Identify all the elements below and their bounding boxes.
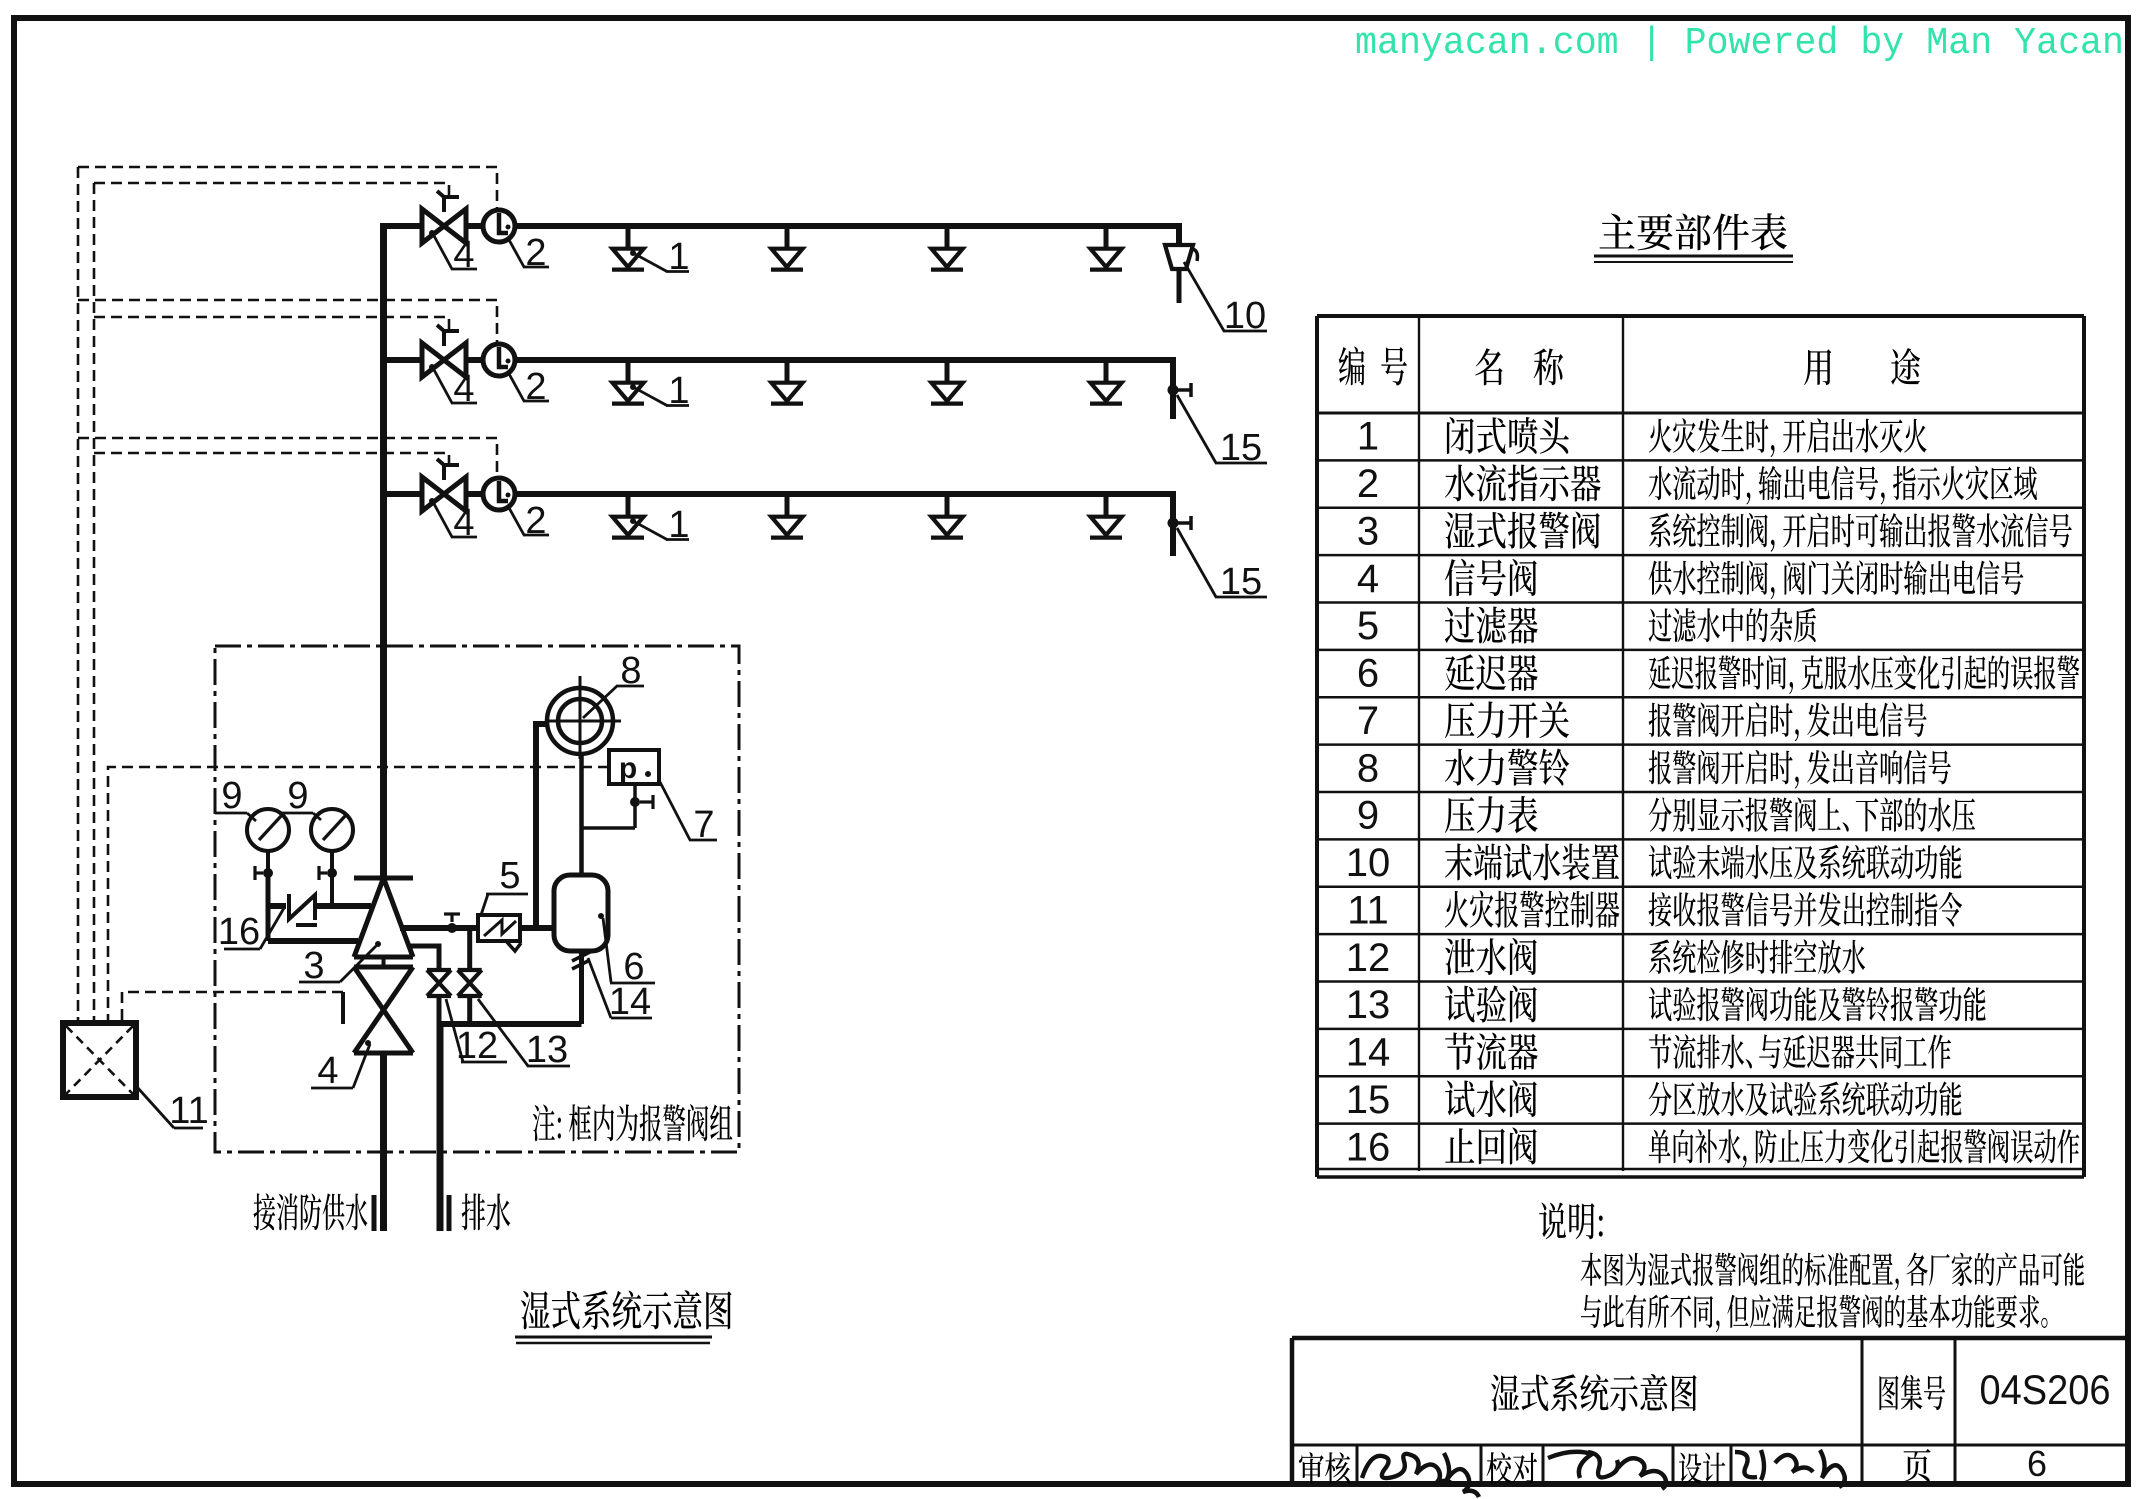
signal valve 4 on branch 3	[422, 459, 466, 511]
signal valve 4 on branch 1	[422, 191, 466, 243]
label 16	[218, 908, 284, 953]
label 1 branch 2	[630, 370, 690, 412]
wire to flow indicator 1	[78, 167, 497, 210]
svg-text:16: 16	[1346, 1125, 1391, 1169]
shuoming heading	[1539, 1203, 1603, 1240]
label 2 branch 3	[508, 500, 549, 542]
note line 1	[1581, 1252, 2084, 1290]
label supply text	[254, 1193, 368, 1230]
label 4 riser	[311, 1044, 370, 1092]
svg-text:15: 15	[1346, 1078, 1391, 1122]
svg-text:6: 6	[2027, 1443, 2047, 1484]
note kuangnei	[533, 1104, 732, 1141]
sprinkler 1 (branch 1 #4)	[1090, 228, 1122, 270]
alarm valve group box (dash-dot)	[215, 646, 739, 1152]
test water valve 15 branch 2	[1168, 383, 1192, 397]
wet alarm valve 3	[354, 878, 413, 967]
sprinkler 1 (branch 2 #1)	[612, 362, 644, 404]
label 4 branch 3	[433, 502, 477, 544]
diagram title	[515, 1290, 732, 1343]
test valve 13	[458, 970, 482, 996]
pipe bell to delayer	[579, 754, 584, 875]
label sheji	[1679, 1453, 1725, 1484]
label 15 branch 3	[1177, 528, 1267, 603]
svg-text:3: 3	[1357, 509, 1379, 553]
svg-text:4: 4	[453, 368, 474, 410]
table row 13 试验阀	[1346, 983, 1986, 1027]
pipe riser to bell	[536, 724, 549, 928]
svg-text:5: 5	[1357, 604, 1379, 648]
pressure gauge 9b	[311, 809, 353, 851]
branch pipe 1	[384, 226, 1180, 246]
svg-text:manyacan.com | Powered by Man: manyacan.com | Powered by Man Yacan	[1355, 22, 2124, 65]
table row 4 信号阀	[1357, 557, 2024, 601]
svg-text:8: 8	[1357, 746, 1379, 790]
label 15 branch 2	[1177, 395, 1267, 469]
svg-text:14: 14	[1346, 1031, 1391, 1075]
svg-text:5: 5	[499, 855, 520, 897]
table row 9 压力表	[1357, 794, 1975, 838]
title block atlas number	[1980, 1366, 2111, 1413]
bell crosshair horizontal	[545, 720, 621, 723]
alarm outlet pipe	[400, 914, 478, 933]
label 4 branch 1	[433, 234, 477, 276]
gauge shutoff a	[255, 851, 273, 880]
sprinkler 1 (branch 1 #1)	[612, 228, 644, 270]
water motor alarm bell 8	[547, 688, 613, 754]
table row 5 过滤器	[1357, 604, 1816, 648]
label 3	[299, 941, 381, 987]
table row 14 节流器	[1346, 1031, 1951, 1075]
label 10	[1184, 262, 1267, 337]
label 8	[583, 650, 644, 718]
svg-text:4: 4	[1357, 557, 1379, 601]
signature 1	[1362, 1453, 1479, 1497]
wire trunk D (signal valve 4)	[122, 992, 343, 1023]
svg-text:p: p	[619, 752, 637, 785]
table row 12 泄水阀	[1346, 936, 1865, 980]
sprinkler 1 (branch 2 #2)	[771, 362, 803, 404]
drain collector pipe	[437, 1021, 582, 1027]
drain valve 12	[427, 970, 451, 996]
svg-text:16: 16	[218, 911, 260, 953]
delayer 6	[554, 875, 608, 951]
svg-text:11: 11	[169, 1090, 208, 1132]
label shenhe	[1299, 1452, 1350, 1484]
title block page number	[2027, 1443, 2047, 1484]
wire trunk C (pressure switch)	[108, 767, 609, 1023]
check valve 16	[289, 894, 317, 925]
svg-text:15: 15	[1220, 427, 1262, 469]
gauge manifold pipes	[268, 873, 371, 941]
sprinkler 1 (branch 1 #2)	[771, 228, 803, 270]
wire to signal valve 1	[94, 183, 449, 197]
signature 3	[1735, 1450, 1845, 1487]
sprinkler 1 (branch 2 #3)	[931, 362, 963, 404]
table title	[1594, 213, 1793, 262]
svg-text:04S206: 04S206	[1980, 1366, 2111, 1413]
sprinkler 1 (branch 3 #1)	[612, 496, 644, 538]
table row 15 试水阀	[1346, 1078, 1962, 1122]
flow indicator 2 on branch 3	[483, 478, 515, 510]
drain tee pipe	[408, 946, 439, 970]
svg-text:7: 7	[693, 804, 714, 846]
svg-text:2: 2	[525, 232, 546, 274]
pressure gauge 9a	[247, 809, 289, 851]
wire to signal valve 3	[94, 453, 449, 465]
svg-text:4: 4	[453, 502, 474, 544]
flow indicator 2 on branch 2	[483, 344, 515, 376]
svg-text:1: 1	[668, 236, 689, 278]
filter 5	[478, 915, 521, 951]
wire to flow indicator 3	[78, 438, 497, 478]
svg-text:1: 1	[668, 370, 689, 412]
svg-text:4: 4	[317, 1050, 338, 1092]
svg-text:9: 9	[1357, 794, 1379, 838]
label 12	[446, 999, 507, 1067]
svg-text:10: 10	[1224, 295, 1266, 337]
throttle 14	[572, 951, 590, 1024]
wire trunk A	[77, 167, 80, 1023]
flow indicator 2 on branch 1	[483, 210, 515, 242]
label 4 branch 2	[433, 368, 477, 410]
fire alarm controller 11	[63, 1023, 136, 1097]
parts table grid	[1317, 316, 2084, 1177]
pressure switch drop pipe	[630, 784, 653, 828]
label 14	[588, 958, 652, 1023]
valve drops to collector	[439, 996, 470, 1024]
svg-text:9: 9	[221, 775, 242, 817]
title block grid	[1292, 1338, 2131, 1484]
label 7	[660, 782, 717, 846]
wire trunk B	[93, 183, 96, 1023]
label 5	[481, 855, 528, 915]
bell crosshair vertical	[579, 676, 582, 759]
svg-text:15: 15	[1220, 561, 1262, 603]
pressure switch connector pipe	[580, 826, 635, 830]
pressure switch 7	[609, 750, 659, 785]
table row 8 水力警铃	[1357, 746, 1951, 790]
table row 16 止回阀	[1346, 1125, 2080, 1169]
end test device 10	[1165, 245, 1197, 303]
signal valve 4 riser	[343, 967, 413, 1053]
wire to signal valve 2	[94, 317, 449, 331]
label jiaodui	[1487, 1452, 1537, 1484]
pipe filter to delayer	[520, 925, 554, 931]
table row 2 水流指示器	[1357, 462, 2037, 506]
title block atlas label	[1879, 1375, 1945, 1410]
label 11	[137, 1087, 209, 1132]
svg-text:4: 4	[453, 234, 474, 276]
table row 6 延迟器	[1357, 652, 2079, 696]
svg-text:9: 9	[287, 775, 308, 817]
note line 2	[1581, 1294, 2048, 1332]
table header	[1339, 346, 1920, 385]
sprinkler 1 (branch 3 #4)	[1090, 496, 1122, 538]
test valve branch pipe	[467, 928, 472, 970]
label 9a	[215, 775, 256, 821]
label drain text	[462, 1193, 511, 1230]
sprinkler 1 (branch 1 #3)	[931, 228, 963, 270]
table row 1 闭式喷头	[1357, 415, 1927, 459]
svg-text:6: 6	[1357, 652, 1379, 696]
label 1 branch 3	[630, 504, 690, 546]
label 13	[478, 999, 570, 1071]
signal valve 4 on branch 2	[422, 325, 466, 377]
label 6	[598, 913, 655, 988]
svg-text:8: 8	[620, 650, 641, 692]
svg-text:1: 1	[668, 504, 689, 546]
title block drawing name	[1491, 1374, 1697, 1411]
table row 10 末端试水装置	[1346, 841, 1962, 885]
svg-text:11: 11	[1347, 888, 1389, 932]
sprinkler 1 (branch 3 #3)	[931, 496, 963, 538]
label 2 branch 1	[508, 232, 549, 274]
svg-text:13: 13	[1346, 983, 1391, 1027]
label 9b	[281, 775, 321, 820]
table row 7 压力开关	[1357, 699, 1927, 743]
svg-text:1: 1	[1357, 415, 1379, 459]
svg-text:7: 7	[1357, 699, 1379, 743]
svg-text:12: 12	[1346, 936, 1391, 980]
sprinkler 1 (branch 2 #4)	[1090, 362, 1122, 404]
wire to flow indicator 2	[78, 300, 497, 344]
label 1 branch 1	[630, 236, 690, 278]
svg-text:10: 10	[1346, 841, 1391, 885]
supply pipe bottom	[374, 1053, 384, 1231]
branch pipe 2	[384, 360, 1174, 419]
signature 2	[1548, 1452, 1666, 1489]
gauge shutoff b	[319, 851, 337, 880]
svg-text:2: 2	[525, 500, 546, 542]
sprinkler 1 (branch 3 #2)	[771, 496, 803, 538]
label 2 branch 2	[508, 366, 549, 408]
title block page label	[1903, 1449, 1930, 1482]
svg-text:2: 2	[525, 366, 546, 408]
table row 11 火灾报警控制器	[1347, 888, 1962, 932]
main riser pipe	[380, 223, 387, 878]
test water valve 15 branch 3	[1168, 516, 1192, 530]
svg-text:2: 2	[1357, 462, 1379, 506]
branch pipe 3	[384, 494, 1174, 556]
drain pipe bottom	[440, 1024, 449, 1231]
watermark manyacan	[1355, 22, 2124, 65]
table row 3 湿式报警阀	[1357, 509, 2072, 553]
